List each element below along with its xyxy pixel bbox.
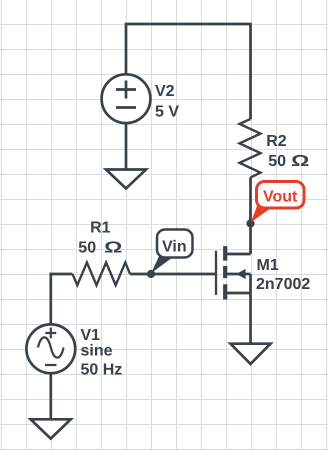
voltage source V1	[26, 324, 75, 373]
flag Vout	[251, 182, 304, 223]
svg-text:50: 50	[268, 153, 286, 170]
flag Vin	[151, 230, 192, 274]
voltage source V2	[102, 74, 151, 123]
svg-text:2n7002: 2n7002	[256, 276, 310, 293]
wire R1 right to node Vin	[130, 273, 151, 276]
wire V1 plus terminal to R1 left	[51, 274, 73, 325]
M1 drain lead	[227, 253, 251, 256]
ground below V1	[31, 419, 71, 438]
M1 source lead	[227, 292, 251, 295]
svg-text:Vout: Vout	[263, 189, 298, 206]
svg-text:Ω: Ω	[104, 239, 122, 256]
svg-text:Vin: Vin	[162, 238, 187, 255]
svg-text:50: 50	[78, 239, 96, 256]
M1 gate plate	[215, 251, 217, 295]
svg-text:sine: sine	[81, 343, 113, 360]
M1 body lead	[227, 273, 251, 276]
wire top rail (V2 plus terminal to R2 top)	[126, 24, 251, 119]
svg-text:M1: M1	[257, 257, 279, 274]
M1 body arrow	[236, 269, 245, 279]
svg-text:V1: V1	[81, 327, 101, 344]
resistor R1	[73, 263, 131, 286]
transistor M1	[151, 246, 251, 344]
wire V1 minus terminal to ground	[49, 373, 52, 419]
ground below M1 source	[231, 344, 271, 364]
wire gate lead	[151, 273, 215, 276]
svg-text:V2: V2	[155, 83, 175, 100]
svg-text:Ω: Ω	[291, 153, 309, 170]
svg-text:5 V: 5 V	[155, 104, 179, 121]
svg-text:50 Hz: 50 Hz	[81, 361, 123, 378]
wire M1 source to ground	[249, 274, 252, 344]
svg-text:R1: R1	[90, 220, 111, 237]
M1 channel segments	[223, 246, 227, 299]
wire V2 minus terminal to ground	[125, 123, 128, 170]
node Vout (junction dot)	[246, 219, 254, 227]
svg-text:R2: R2	[266, 133, 287, 150]
resistor R2	[240, 119, 261, 178]
node Vin (junction dot)	[147, 270, 155, 278]
wire R2 bottom through node Vout to M1 drain	[249, 178, 252, 255]
ground below V2	[106, 170, 146, 189]
